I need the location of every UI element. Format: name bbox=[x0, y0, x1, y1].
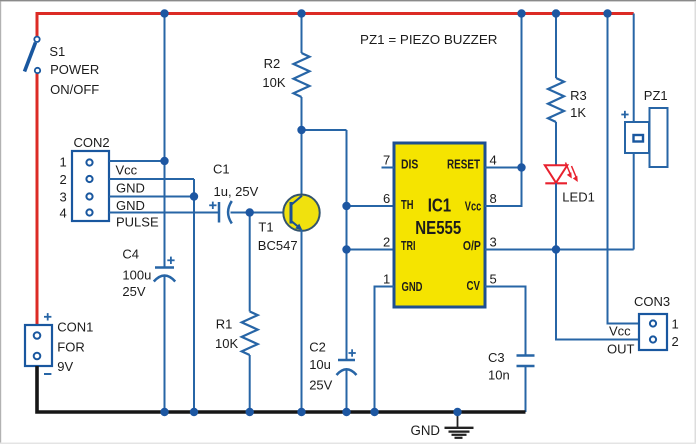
svg-text:O/P: O/P bbox=[463, 239, 481, 253]
svg-text:T1: T1 bbox=[258, 220, 273, 235]
piezo buzzer PZ1 bbox=[621, 14, 667, 250]
resistor R2 bbox=[294, 14, 310, 197]
svg-text:IC1: IC1 bbox=[428, 195, 452, 215]
connector CON3 bbox=[639, 314, 667, 350]
LED1 bbox=[545, 163, 578, 250]
svg-text:ON/OFF: ON/OFF bbox=[50, 82, 99, 97]
label S1 POWER ON/OFF bbox=[49, 44, 99, 97]
svg-text:100u: 100u bbox=[122, 268, 151, 283]
svg-text:CV: CV bbox=[467, 279, 481, 293]
label R3 1K bbox=[570, 88, 587, 120]
svg-text:1: 1 bbox=[60, 155, 67, 170]
svg-text:C2: C2 bbox=[309, 339, 326, 354]
svg-text:2: 2 bbox=[672, 334, 679, 349]
svg-text:FOR: FOR bbox=[57, 340, 84, 355]
label CON1 FOR 9V bbox=[57, 319, 93, 374]
svg-text:GND: GND bbox=[116, 198, 145, 213]
label C2 10u 25V bbox=[309, 339, 332, 392]
svg-text:TH: TH bbox=[401, 198, 414, 212]
svg-text:GND: GND bbox=[402, 280, 423, 294]
pin 7 DIS stub bbox=[382, 167, 395, 169]
label T1 BC547 bbox=[258, 220, 298, 253]
wire: TH pin6 bbox=[347, 205, 395, 207]
CON3 pin numbers bbox=[672, 316, 679, 349]
svg-text:9V: 9V bbox=[57, 359, 73, 374]
wire: OUT branch from O/P to CON3 pin2 bbox=[556, 250, 639, 340]
capacitor C4 bbox=[154, 257, 175, 282]
IC1 labels bbox=[401, 158, 481, 294]
label R1 10K bbox=[215, 316, 238, 351]
label C3 10n bbox=[488, 350, 510, 383]
svg-text:2: 2 bbox=[383, 235, 390, 250]
resistor R1 bbox=[242, 213, 258, 413]
label R2 10K bbox=[262, 56, 285, 90]
svg-text:4: 4 bbox=[60, 205, 67, 220]
svg-text:4: 4 bbox=[490, 153, 497, 168]
svg-text:CON2: CON2 bbox=[74, 135, 110, 150]
svg-text:25V: 25V bbox=[122, 284, 145, 299]
svg-text:PZ1: PZ1 bbox=[644, 88, 668, 103]
svg-text:CON1: CON1 bbox=[57, 319, 93, 334]
svg-text:7: 7 bbox=[383, 153, 390, 168]
svg-text:R3: R3 bbox=[570, 88, 587, 103]
wire: vertical x=164 (Vcc / C4 branch) bbox=[164, 14, 166, 268]
wire: CON2 pin3 GND row bbox=[109, 196, 194, 198]
svg-text:2: 2 bbox=[60, 172, 67, 187]
svg-text:1: 1 bbox=[672, 316, 679, 331]
svg-text:PULSE: PULSE bbox=[116, 215, 159, 230]
wire: TRI pin2 bbox=[347, 249, 395, 251]
svg-text:1K: 1K bbox=[570, 105, 586, 120]
svg-text:POWER: POWER bbox=[50, 62, 99, 77]
svg-text:TRI: TRI bbox=[401, 239, 416, 253]
svg-text:10u: 10u bbox=[309, 357, 331, 372]
svg-text:BC547: BC547 bbox=[258, 238, 298, 253]
resistor R3 bbox=[548, 14, 564, 165]
label C1 1u,25V bbox=[213, 161, 259, 199]
svg-text:PZ1 = PIEZO BUZZER: PZ1 = PIEZO BUZZER bbox=[360, 32, 498, 47]
capacitor C1 bbox=[209, 201, 232, 224]
svg-text:Vcc: Vcc bbox=[116, 162, 138, 177]
svg-text:S1: S1 bbox=[49, 44, 65, 59]
ground symbol bbox=[445, 412, 474, 438]
connector CON2 bbox=[72, 151, 109, 221]
wire: CON2 pin4 PULSE row to C1 bbox=[109, 212, 219, 214]
svg-text:NE555: NE555 bbox=[415, 218, 461, 238]
capacitor C2 bbox=[337, 349, 357, 412]
wire: vertical x=346.5 (TH/TRI/C2) bbox=[346, 130, 348, 360]
svg-text:GND: GND bbox=[411, 423, 441, 439]
svg-text:25V: 25V bbox=[309, 377, 332, 392]
svg-text:Vcc: Vcc bbox=[465, 200, 482, 214]
svg-text:CON3: CON3 bbox=[634, 294, 670, 309]
svg-text:R1: R1 bbox=[216, 316, 233, 331]
wire: CON2 pin1 Vcc row bbox=[109, 160, 165, 162]
svg-text:C4: C4 bbox=[122, 247, 139, 262]
transistor T1 BC547 bbox=[283, 195, 319, 413]
svg-text:GND: GND bbox=[116, 181, 145, 196]
wire: red top rail bbox=[37, 14, 634, 37]
IC1 NE555 box bbox=[394, 143, 485, 307]
wire: collector junction to TH/TRI column bbox=[302, 129, 347, 131]
wire: vertical x=194 (CON2 GND to ground rail) bbox=[193, 179, 195, 412]
svg-text:DIS: DIS bbox=[401, 158, 418, 172]
IC1 pin numbers bbox=[383, 153, 497, 287]
svg-text:C1: C1 bbox=[213, 161, 230, 176]
svg-text:10K: 10K bbox=[215, 336, 238, 351]
svg-text:OUT: OUT bbox=[607, 341, 635, 356]
capacitor C3 bbox=[517, 356, 535, 413]
switch S1 bbox=[25, 37, 41, 74]
svg-text:6: 6 bbox=[383, 191, 390, 206]
svg-text:10K: 10K bbox=[262, 75, 285, 90]
CON2 pin numbers 1-4 bbox=[60, 155, 67, 221]
pin 4 RESET wire bbox=[485, 167, 522, 169]
svg-text:1u, 25V: 1u, 25V bbox=[214, 184, 259, 199]
svg-text:Vcc: Vcc bbox=[609, 324, 631, 339]
pin 1 GND wire bbox=[375, 287, 395, 413]
wire: C1 to base with R1 junction bbox=[231, 212, 292, 214]
svg-text:3: 3 bbox=[60, 189, 67, 204]
svg-text:8: 8 bbox=[490, 191, 497, 206]
pin 5 CV wire bbox=[485, 287, 526, 356]
wire: +9V red rail top bbox=[36, 73, 39, 325]
labels Vcc OUT bbox=[607, 324, 635, 357]
svg-text:1: 1 bbox=[383, 272, 390, 287]
svg-text:3: 3 bbox=[490, 235, 497, 250]
svg-text:RESET: RESET bbox=[447, 158, 480, 172]
wire: Vcc branch x=607.5 to CON3 pin1 bbox=[608, 14, 640, 324]
connector CON1 bbox=[25, 313, 52, 374]
pin 3 O/P wire bbox=[485, 249, 634, 251]
wire: ground rail black bbox=[37, 366, 526, 412]
pin 8 Vcc wire bbox=[485, 14, 522, 207]
svg-text:R2: R2 bbox=[264, 56, 281, 71]
svg-text:C3: C3 bbox=[488, 350, 505, 365]
svg-text:5: 5 bbox=[490, 272, 497, 287]
labels Vcc GND GND PULSE bbox=[116, 162, 159, 229]
label C4 100u 25V bbox=[122, 247, 151, 299]
svg-text:LED1: LED1 bbox=[562, 189, 595, 204]
svg-text:10n: 10n bbox=[488, 368, 510, 383]
wire: CON2 pin2 GND row bbox=[109, 178, 194, 180]
